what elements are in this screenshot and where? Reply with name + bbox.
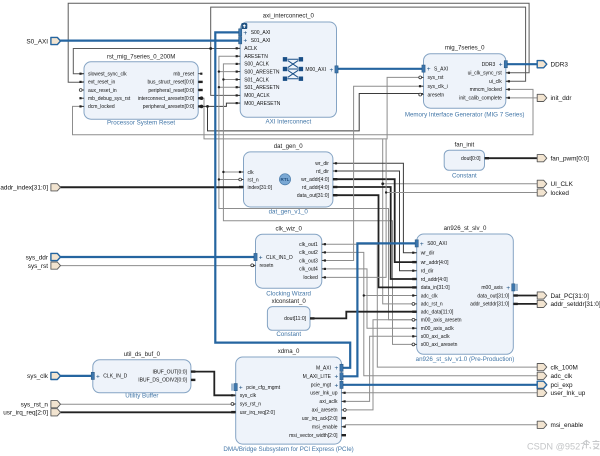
junction peripheral_aresetn junction b bbox=[206, 105, 209, 108]
wire ui_clk branch to UI_CLK port bbox=[383, 183, 538, 185]
svg-text:slowest_sync_clk: slowest_sync_clk bbox=[88, 72, 127, 78]
wire S00_ARESETN stub bbox=[219, 71, 240, 73]
wire clk bundle x223 bbox=[223, 64, 416, 345]
svg-text:s00_axi_aresetn: s00_axi_aresetn bbox=[421, 342, 458, 348]
wire xlconstant dout bus bbox=[310, 312, 417, 319]
wire S01_ARESETN stub bbox=[219, 86, 240, 88]
svg-text:sys_rst_n: sys_rst_n bbox=[21, 402, 49, 409]
wire dat data_out bus bbox=[333, 195, 417, 287]
svg-text:user_lnk_up: user_lnk_up bbox=[551, 390, 586, 397]
wire dat wr_addr bus bbox=[333, 179, 417, 262]
IP block dat_gen_0 bbox=[239, 143, 338, 215]
svg-text:+: + bbox=[259, 254, 263, 261]
axi interconnect corner icon bbox=[241, 23, 247, 29]
wire aresetn spur to an926 adc_rst_n bbox=[383, 139, 417, 304]
svg-text:clk_wiz_0: clk_wiz_0 bbox=[275, 225, 302, 232]
svg-text:usr_irq_ack[2:0]: usr_irq_ack[2:0] bbox=[302, 416, 338, 422]
wire interconnect_aresetn to mig sys_rst bbox=[198, 77, 423, 138]
svg-text:sys_rst: sys_rst bbox=[28, 263, 48, 270]
svg-text:init_calib_complete: init_calib_complete bbox=[459, 96, 502, 102]
svg-text:clk_out1: clk_out1 bbox=[299, 242, 318, 248]
svg-text:+: + bbox=[96, 373, 100, 380]
external port usr_irq_req[2:0] bbox=[3, 409, 60, 417]
svg-text:aux_reset_in: aux_reset_in bbox=[88, 88, 117, 94]
svg-text:axi_aclk: axi_aclk bbox=[319, 399, 338, 405]
svg-text:+: + bbox=[499, 62, 503, 69]
wire sys_rst_n wire bbox=[60, 403, 236, 405]
svg-text:msi_enable: msi_enable bbox=[551, 422, 584, 429]
wire addr_setddr bus bbox=[513, 303, 537, 305]
IP block rst_mig_7series_0_200M (Processor System Reset) bbox=[79, 54, 202, 127]
wire init_calib_complete to init_ddr bbox=[506, 97, 537, 99]
svg-text:mb_debug_sys_rst: mb_debug_sys_rst bbox=[88, 96, 131, 102]
IP block xlconstant_0 (Constant) bbox=[267, 298, 314, 338]
wire M00_AXI to mig S_AXI (AXI) bbox=[337, 68, 424, 70]
wire ui_clk to M00_ACLK bbox=[211, 7, 526, 95]
svg-text:+: + bbox=[243, 30, 247, 37]
svg-text:+: + bbox=[239, 385, 243, 392]
wire usr_irq_req bus bbox=[60, 411, 236, 413]
wire dat_gen clk stub bbox=[223, 171, 243, 173]
junction clk bundle junction 2 bbox=[222, 171, 224, 173]
wire peripheral_aresetn to M00_ARESETN bbox=[198, 103, 240, 106]
svg-text:S00_AXI: S00_AXI bbox=[427, 241, 447, 247]
svg-text:m00_axis_aclk: m00_axis_aclk bbox=[421, 326, 455, 332]
svg-text:+: + bbox=[334, 374, 338, 381]
svg-text:adc_clk: adc_clk bbox=[551, 373, 573, 380]
svg-text:Dat_PC[31:0]: Dat_PC[31:0] bbox=[551, 293, 590, 300]
external port init_ddr bbox=[537, 94, 572, 102]
wire aresetn bundle tail bbox=[219, 180, 417, 320]
svg-text:S_AXI: S_AXI bbox=[434, 66, 448, 72]
svg-text:Processor System Reset: Processor System Reset bbox=[107, 120, 175, 127]
svg-text:fan_pwm[0:0]: fan_pwm[0:0] bbox=[551, 156, 590, 163]
IP block axi_interconnect_0 (AXI Interconnect) bbox=[236, 13, 339, 126]
svg-text:addr_setddr[31:0]: addr_setddr[31:0] bbox=[470, 302, 510, 308]
external port UI_CLK bbox=[537, 180, 573, 188]
IP block clk_wiz_0 (Clocking Wizard) bbox=[251, 225, 326, 297]
svg-text:ACLK: ACLK bbox=[244, 46, 258, 52]
svg-text:S0_AXI: S0_AXI bbox=[26, 38, 48, 45]
svg-text:+: + bbox=[427, 66, 431, 73]
svg-text:CLK_IN_D: CLK_IN_D bbox=[103, 374, 127, 380]
svg-text:+: + bbox=[420, 241, 424, 248]
external port addr_setddr[31:0] bbox=[537, 300, 600, 308]
junction locked junction bbox=[385, 191, 387, 193]
svg-text:ARESETN: ARESETN bbox=[244, 54, 268, 60]
external port sys_ddr bbox=[26, 253, 61, 261]
svg-text:mmcm_locked: mmcm_locked bbox=[470, 87, 502, 93]
svg-text:sys_clk_i: sys_clk_i bbox=[428, 84, 448, 90]
IP block xdma_0 (DMA/Bridge Subsystem for PCI Express) bbox=[223, 348, 353, 453]
wire pcie_mgt to pci_exp bbox=[342, 384, 538, 386]
svg-text:clk_out2: clk_out2 bbox=[299, 250, 318, 256]
svg-text:sys_clk: sys_clk bbox=[27, 373, 49, 380]
svg-text:+: + bbox=[329, 67, 333, 74]
svg-text:mb_reset: mb_reset bbox=[173, 72, 194, 78]
svg-text:addr_index[31:0]: addr_index[31:0] bbox=[0, 185, 48, 192]
svg-text:sys_clk: sys_clk bbox=[240, 393, 257, 399]
svg-text:ui_clk: ui_clk bbox=[489, 79, 502, 85]
svg-text:rd_dir: rd_dir bbox=[421, 269, 434, 275]
external port addr_index[31:0] bbox=[0, 184, 60, 192]
svg-text:xlconstant_0: xlconstant_0 bbox=[272, 298, 307, 305]
svg-text:S01_AXI: S01_AXI bbox=[251, 38, 271, 44]
wire IBUF_OUT to xdma sys_clk bbox=[191, 372, 236, 396]
external port sys_rst bbox=[28, 262, 61, 270]
svg-text:addr_setddr[31:0]: addr_setddr[31:0] bbox=[551, 301, 600, 308]
svg-text:pcie_cfg_mgmt: pcie_cfg_mgmt bbox=[246, 385, 281, 391]
svg-text:CLK_IN1_D: CLK_IN1_D bbox=[266, 255, 293, 261]
wire M_AXI to S00_AXI (AXI) bbox=[215, 32, 350, 367]
svg-text:UI_CLK: UI_CLK bbox=[551, 181, 574, 188]
svg-text:IBUF_DS_ODIV2[0:0]: IBUF_DS_ODIV2[0:0] bbox=[138, 378, 187, 384]
svg-text:pcie_mgt: pcie_mgt bbox=[311, 383, 332, 389]
svg-text:DDR3: DDR3 bbox=[482, 62, 496, 68]
wire user_lnk_up wire bbox=[342, 392, 538, 394]
svg-text:adc_rst_n: adc_rst_n bbox=[421, 302, 443, 308]
svg-text:msi_enable: msi_enable bbox=[312, 425, 338, 431]
svg-text:+: + bbox=[243, 38, 247, 45]
svg-text:user_lnk_up: user_lnk_up bbox=[310, 391, 337, 397]
svg-text:rd_dir: rd_dir bbox=[316, 169, 329, 175]
svg-text:m00_axis_aresetn: m00_axis_aresetn bbox=[421, 318, 462, 324]
wire ui_clk_sync_rst to ext_reset_in bbox=[68, 3, 529, 82]
svg-text:wr_dir: wr_dir bbox=[315, 161, 329, 167]
wire fan dout to fan_pwm bbox=[485, 157, 538, 159]
svg-text:m00_axis: m00_axis bbox=[481, 285, 503, 291]
junction bundle junction 3 bbox=[218, 178, 220, 180]
junction sys_rst_n dot bbox=[232, 403, 235, 406]
external port user_lnk_up bbox=[537, 389, 586, 397]
junction clk bundle junction 1 bbox=[222, 78, 224, 80]
external port locked bbox=[537, 189, 569, 197]
svg-text:adc_clk: adc_clk bbox=[421, 293, 438, 299]
external port S0_AXI bbox=[26, 37, 60, 45]
svg-text:M00_AXI: M00_AXI bbox=[305, 67, 326, 73]
svg-text:s00_axi_aclk: s00_axi_aclk bbox=[421, 334, 450, 340]
svg-text:M00_ARESETN: M00_ARESETN bbox=[244, 101, 281, 107]
wire sys_rst to resetn bbox=[60, 265, 256, 267]
junction bundle junction 1 bbox=[218, 70, 220, 72]
svg-text:rst_mig_7series_0_200M: rst_mig_7series_0_200M bbox=[107, 54, 175, 61]
external port DDR3 bbox=[537, 61, 568, 69]
wire sys_clk to CLK_IN_D bbox=[60, 375, 93, 377]
wire clk_out1 to clk_100M bbox=[322, 244, 537, 367]
svg-text:pci_exp: pci_exp bbox=[551, 382, 573, 389]
svg-text:IBUF_OUT[0:0]: IBUF_OUT[0:0] bbox=[152, 369, 187, 375]
svg-text:CSDN @9527: CSDN @9527 bbox=[527, 442, 585, 452]
svg-text:an926_st_slv_0: an926_st_slv_0 bbox=[444, 225, 487, 232]
wire aresetn bundle x219 bbox=[219, 56, 244, 179]
svg-text:Memory Interface Generator (MI: Memory Interface Generator (MIG 7 Series… bbox=[405, 112, 525, 119]
external port sys_clk bbox=[27, 372, 60, 380]
svg-text:sys_rst: sys_rst bbox=[428, 75, 444, 81]
svg-text:clk: clk bbox=[248, 170, 255, 176]
svg-text:Constant: Constant bbox=[276, 331, 301, 338]
wire dat wr_dir bbox=[333, 163, 417, 252]
svg-text:data_out[31:0]: data_out[31:0] bbox=[297, 193, 330, 199]
svg-text:RTL: RTL bbox=[281, 177, 290, 182]
svg-text:dout[11:0]: dout[11:0] bbox=[284, 316, 306, 322]
external port Dat_PC[31:0] bbox=[537, 292, 589, 300]
svg-text:fan_init: fan_init bbox=[455, 141, 475, 148]
wire mmcm_locked to dcm_locked bbox=[73, 89, 534, 134]
wire ui_clk branch to ACLK bbox=[211, 48, 241, 50]
svg-text:aresetn: aresetn bbox=[428, 92, 445, 98]
junction bundle junction 2 bbox=[218, 86, 220, 88]
svg-text:M_AXI_LITE: M_AXI_LITE bbox=[303, 374, 332, 380]
svg-text:bus_struct_reset[0:0]: bus_struct_reset[0:0] bbox=[147, 80, 194, 86]
svg-text:rd_addr[4:0]: rd_addr[4:0] bbox=[302, 185, 330, 191]
svg-text:usr_irq_req[2:0]: usr_irq_req[2:0] bbox=[240, 410, 276, 416]
external port fan_pwm[0:0] bbox=[537, 155, 589, 163]
svg-text:S01_ACLK: S01_ACLK bbox=[244, 77, 269, 83]
svg-text:clk_out3: clk_out3 bbox=[299, 258, 318, 264]
svg-text:usr_irq_req[2:0]: usr_irq_req[2:0] bbox=[3, 410, 48, 417]
external port adc_clk bbox=[537, 372, 573, 380]
watermark CSDN bbox=[527, 440, 600, 452]
svg-text:axi_interconnect_0: axi_interconnect_0 bbox=[263, 13, 315, 20]
svg-text:wr_dir: wr_dir bbox=[421, 251, 435, 257]
svg-text:an926_st_slv_v1.0 (Pre-Product: an926_st_slv_v1.0 (Pre-Production) bbox=[416, 356, 515, 363]
junction interconnect_aresetn junction bbox=[200, 96, 204, 100]
wire S01_ACLK stub bbox=[223, 79, 240, 81]
svg-text:locked: locked bbox=[551, 190, 570, 197]
svg-text:resetn: resetn bbox=[260, 263, 274, 269]
axi interconnect crossbar icon bbox=[283, 57, 303, 81]
wire dat rd_dir bbox=[333, 171, 417, 271]
wire addr_index bus bbox=[60, 186, 244, 188]
svg-text:Clocking Wizard: Clocking Wizard bbox=[266, 291, 311, 298]
external port sys_rst_n bbox=[21, 401, 61, 409]
svg-text:interconnect_aresetn[0:0]: interconnect_aresetn[0:0] bbox=[138, 96, 195, 102]
svg-text:rst_n: rst_n bbox=[248, 177, 259, 183]
svg-text:M00_ACLK: M00_ACLK bbox=[244, 93, 270, 99]
svg-text:wr_addr[4:0]: wr_addr[4:0] bbox=[301, 177, 329, 183]
svg-text:locked: locked bbox=[303, 275, 318, 281]
svg-text:mig_7series_0: mig_7series_0 bbox=[445, 45, 485, 52]
IP block mig_7series_0 (Memory Interface Generator) bbox=[405, 45, 525, 119]
wire clk_out2 branch an926 adc_clk bbox=[364, 295, 417, 297]
svg-text:data_out[31:0]: data_out[31:0] bbox=[477, 293, 510, 299]
svg-text:xdma_0: xdma_0 bbox=[278, 348, 300, 355]
svg-text:ext_reset_in: ext_reset_in bbox=[88, 80, 115, 86]
wire S0_AXI to S01_AXI (AXI) bbox=[60, 39, 240, 41]
svg-text:init_ddr: init_ddr bbox=[551, 95, 573, 102]
wire msi_enable wire bbox=[342, 425, 538, 427]
svg-text:msi_vector_width[2:0]: msi_vector_width[2:0] bbox=[289, 433, 338, 439]
wire clk_out3 to mig sys_clk_i bbox=[322, 86, 424, 260]
wire clk_out4 to m00_axis_aclk bbox=[322, 269, 417, 328]
svg-text:S00_ACLK: S00_ACLK bbox=[244, 62, 269, 68]
svg-text:dcm_locked: dcm_locked bbox=[88, 104, 115, 110]
svg-text:DMA/Bridge Subsystem for PCI E: DMA/Bridge Subsystem for PCI Express (PC… bbox=[223, 446, 353, 453]
wire ui_clk branch to slowest_sync_clk bbox=[73, 49, 210, 74]
svg-text:peripheral_reset[0:0]: peripheral_reset[0:0] bbox=[148, 88, 194, 94]
wire sys_ddr to CLK_IN1_D bbox=[60, 256, 256, 258]
svg-text:dat_gen_v1_0: dat_gen_v1_0 bbox=[269, 208, 309, 215]
svg-text:S01_ARESETN: S01_ARESETN bbox=[244, 85, 280, 91]
wire clk_out2 to adc_clk bbox=[322, 252, 537, 375]
external port clk_100M bbox=[537, 364, 578, 372]
dat_gen RTL icon bbox=[279, 174, 290, 185]
svg-text:data_in[31:0]: data_in[31:0] bbox=[421, 285, 451, 291]
wire peripheral_aresetn to mig aresetn bbox=[208, 94, 424, 131]
junction UI_CLK junction bbox=[381, 182, 384, 185]
svg-text:dat_gen_0: dat_gen_0 bbox=[274, 143, 303, 150]
svg-text:AXI Interconnect: AXI Interconnect bbox=[265, 118, 311, 125]
svg-text:dout[0:0]: dout[0:0] bbox=[461, 156, 481, 162]
svg-text:clk_100M: clk_100M bbox=[551, 364, 578, 371]
svg-text:sys_rst_n: sys_rst_n bbox=[240, 402, 262, 408]
svg-text:util_ds_buf_0: util_ds_buf_0 bbox=[124, 351, 161, 358]
wire dat rd_addr bus bbox=[333, 187, 417, 279]
svg-text:rd_addr[4:0]: rd_addr[4:0] bbox=[421, 277, 449, 283]
svg-text:S00_AXI: S00_AXI bbox=[251, 30, 271, 36]
wire data_out to Dat_PC bus bbox=[513, 295, 537, 297]
svg-text:+: + bbox=[334, 365, 338, 372]
svg-text:DDR3: DDR3 bbox=[551, 62, 569, 69]
svg-text:+: + bbox=[506, 285, 510, 292]
wire locked spur bbox=[385, 139, 387, 193]
wire locked to locked port bbox=[322, 193, 537, 278]
IP block fan_init (Constant) bbox=[444, 141, 489, 179]
wire axi_aresetn to m00_axis_aresetn bbox=[342, 320, 417, 410]
junction peripheral_aresetn junction a bbox=[200, 105, 204, 109]
svg-text:ui_clk_sync_rst: ui_clk_sync_rst bbox=[468, 71, 503, 77]
wire M_AXI_LITE to an926 S00_AXI (AXI) bbox=[342, 243, 417, 376]
svg-text:clk_out4: clk_out4 bbox=[299, 267, 318, 273]
svg-text:sys_ddr: sys_ddr bbox=[26, 254, 49, 261]
svg-text:S00_ARESETN: S00_ARESETN bbox=[244, 69, 280, 75]
svg-text:index[31:0]: index[31:0] bbox=[248, 185, 273, 191]
IP block an926_st_slv_0 bbox=[412, 225, 518, 363]
svg-text:Constant: Constant bbox=[452, 173, 477, 180]
wire axi_aclk to s00_axi_aclk bbox=[342, 336, 417, 401]
svg-text:Utility Buffer: Utility Buffer bbox=[125, 393, 158, 400]
junction ui_clk ACLK junction bbox=[209, 47, 212, 50]
IP block util_ds_buf_0 (Utility Buffer) bbox=[91, 351, 195, 400]
junction adc_clk junction bbox=[363, 294, 365, 296]
svg-text:adc_data[11:0]: adc_data[11:0] bbox=[421, 310, 454, 316]
svg-text:wr_addr[4:0]: wr_addr[4:0] bbox=[421, 260, 449, 266]
external port msi_enable bbox=[537, 421, 583, 429]
svg-text:peripheral_aresetn[0:0]: peripheral_aresetn[0:0] bbox=[143, 104, 195, 110]
wire mig DDR3 to DDR3 port bbox=[506, 63, 537, 65]
svg-text:axi_aresetn: axi_aresetn bbox=[312, 408, 338, 414]
svg-text:M_AXI: M_AXI bbox=[316, 366, 331, 372]
svg-text:+: + bbox=[334, 382, 338, 389]
junction resetn dot bbox=[252, 264, 255, 267]
external port pci_exp bbox=[537, 381, 573, 389]
